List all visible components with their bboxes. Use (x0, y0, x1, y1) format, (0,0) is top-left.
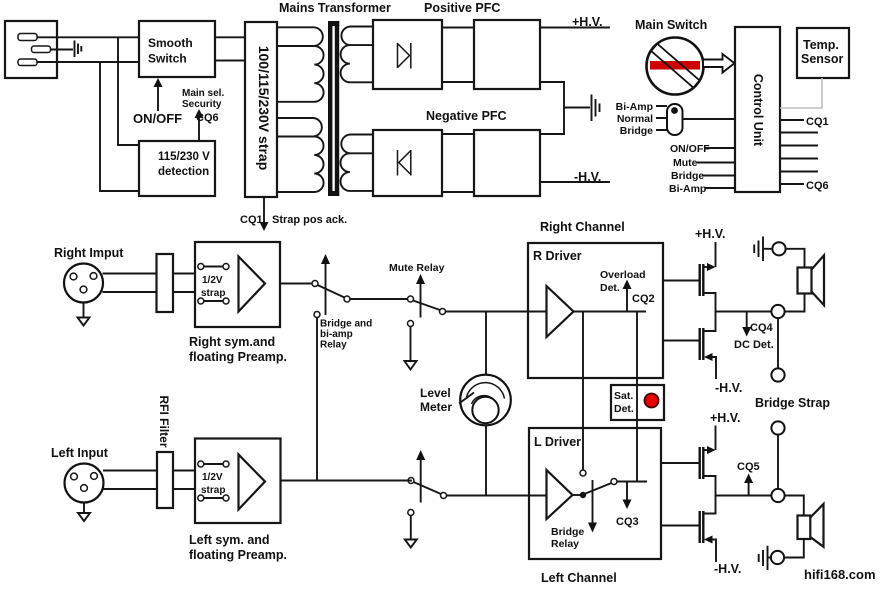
svg-text:CQ5: CQ5 (737, 461, 760, 473)
svg-text:Bi-Amp: Bi-Amp (616, 101, 653, 113)
svg-text:+H.V.: +H.V. (695, 227, 725, 241)
svg-text:Det.: Det. (600, 282, 620, 294)
svg-text:CQ4: CQ4 (750, 322, 774, 334)
svg-text:1/2V: 1/2V (202, 472, 223, 483)
svg-text:Main Switch: Main Switch (635, 18, 707, 32)
svg-text:Mains Transformer: Mains Transformer (279, 1, 391, 15)
svg-text:CQ3: CQ3 (616, 516, 639, 528)
svg-text:115/230 V: 115/230 V (158, 151, 210, 163)
svg-text:Right Imput: Right Imput (54, 246, 124, 260)
svg-text:-H.V.: -H.V. (714, 562, 741, 576)
svg-text:strap: strap (201, 485, 225, 496)
svg-text:Bridge: Bridge (620, 125, 653, 137)
svg-text:strap: strap (201, 288, 225, 299)
svg-text:Meter: Meter (420, 400, 452, 414)
svg-text:floating Preamp.: floating Preamp. (189, 350, 287, 364)
svg-text:Bridge: Bridge (671, 170, 704, 182)
svg-text:Bridge and: Bridge and (320, 319, 372, 330)
svg-text:-H.V.: -H.V. (715, 381, 742, 395)
svg-text:Relay: Relay (551, 538, 579, 550)
svg-text:+H.V.: +H.V. (572, 15, 602, 29)
svg-text:1/2V: 1/2V (202, 275, 223, 286)
svg-text:Bridge: Bridge (551, 526, 584, 538)
svg-text:Negative PFC: Negative PFC (426, 109, 507, 123)
svg-text:Left Input: Left Input (51, 446, 109, 460)
svg-text:ON/OFF: ON/OFF (133, 111, 182, 126)
svg-text:Det.: Det. (614, 403, 634, 415)
svg-text:RFI Filter: RFI Filter (157, 395, 171, 447)
svg-text:Normal: Normal (617, 113, 653, 125)
svg-text:Right sym.and: Right sym.and (189, 335, 275, 349)
svg-text:Mute: Mute (673, 157, 698, 169)
svg-text:hifi168.com: hifi168.com (804, 567, 876, 582)
svg-text:Sat.: Sat. (614, 390, 633, 402)
svg-text:-H.V.: -H.V. (574, 170, 601, 184)
svg-text:Positive PFC: Positive PFC (424, 1, 500, 15)
svg-text:CQ1: CQ1 (806, 116, 829, 128)
svg-text:Bridge Strap: Bridge Strap (755, 396, 830, 410)
svg-text:R Driver: R Driver (533, 249, 582, 263)
svg-text:Strap pos ack.: Strap pos ack. (272, 214, 347, 226)
svg-text:DC Det.: DC Det. (734, 339, 774, 351)
svg-text:CQ1: CQ1 (240, 214, 263, 226)
svg-text:Security: Security (182, 99, 222, 110)
svg-text:CQ6: CQ6 (806, 180, 829, 192)
svg-text:detection: detection (158, 166, 209, 178)
svg-text:Mute Relay: Mute Relay (389, 262, 445, 274)
svg-text:CQ2: CQ2 (632, 293, 655, 305)
svg-text:Right Channel: Right Channel (540, 220, 625, 234)
svg-text:Relay: Relay (320, 340, 347, 351)
svg-text:Sensor: Sensor (801, 52, 844, 66)
svg-text:Smooth: Smooth (148, 36, 193, 50)
svg-text:100/115/230V strap: 100/115/230V strap (256, 46, 272, 171)
svg-text:Left Channel: Left Channel (541, 571, 617, 585)
svg-text:Left sym. and: Left sym. and (189, 533, 270, 547)
svg-text:Main sel.: Main sel. (182, 88, 224, 99)
svg-text:Overload: Overload (600, 269, 646, 281)
svg-text:Control Unit: Control Unit (751, 74, 765, 147)
svg-text:+H.V.: +H.V. (710, 411, 740, 425)
svg-text:ON/OFF: ON/OFF (670, 143, 710, 155)
svg-text:L Driver: L Driver (534, 435, 581, 449)
svg-text:Temp.: Temp. (803, 38, 839, 52)
svg-text:floating Preamp.: floating Preamp. (189, 548, 287, 562)
svg-text:Level: Level (420, 386, 451, 400)
svg-text:Switch: Switch (148, 52, 187, 66)
svg-text:Bi-Amp: Bi-Amp (669, 183, 706, 195)
svg-text:bi-amp: bi-amp (320, 329, 353, 340)
